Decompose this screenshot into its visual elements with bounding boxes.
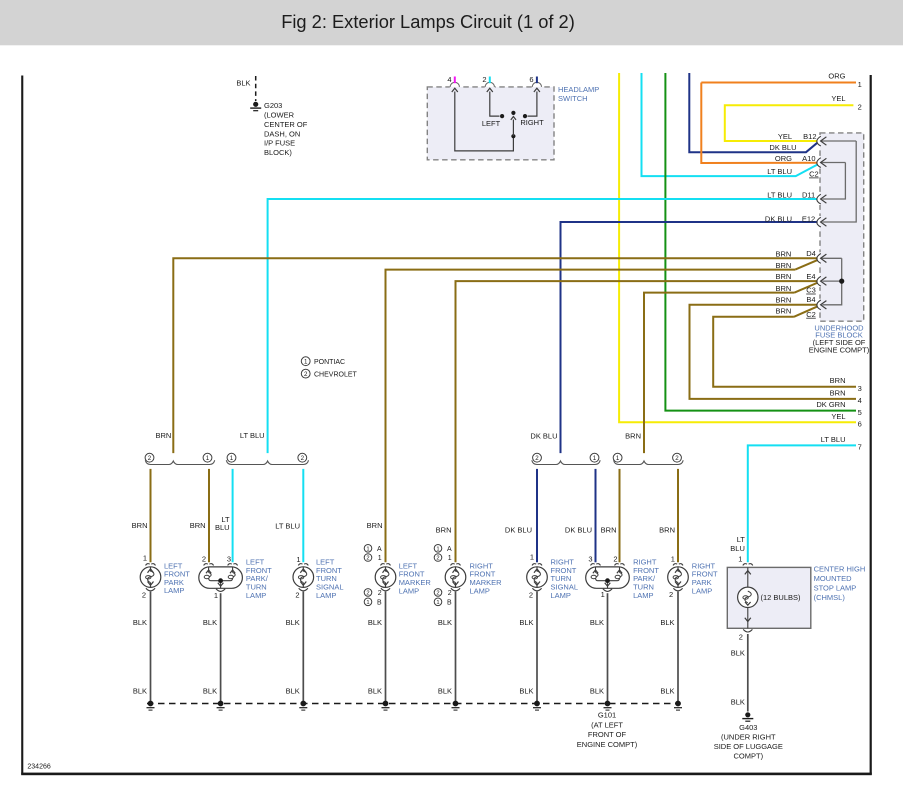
svg-text:BRN: BRN (775, 284, 791, 293)
svg-text:BLK: BLK (368, 618, 382, 627)
svg-text:2: 2 (301, 455, 305, 462)
svg-text:C2: C2 (806, 310, 816, 319)
svg-text:CENTER OF: CENTER OF (264, 120, 308, 129)
svg-text:BLK: BLK (133, 618, 147, 627)
svg-text:1: 1 (593, 455, 597, 462)
svg-text:3: 3 (588, 555, 592, 564)
svg-text:1: 1 (378, 555, 382, 562)
svg-text:BRN: BRN (775, 272, 791, 281)
svg-text:1: 1 (530, 552, 534, 561)
svg-text:2: 2 (436, 590, 439, 596)
svg-text:A: A (377, 546, 382, 553)
svg-text:LAMP: LAMP (164, 586, 184, 595)
svg-text:BRN: BRN (659, 526, 675, 535)
svg-text:Fig 2: Exterior Lamps Circuit: Fig 2: Exterior Lamps Circuit (1 of 2) (281, 11, 575, 32)
svg-text:2: 2 (142, 590, 146, 599)
svg-text:2: 2 (675, 455, 679, 462)
svg-text:BLK: BLK (438, 618, 452, 627)
svg-text:BRN: BRN (601, 526, 617, 535)
svg-text:1: 1 (366, 600, 369, 606)
svg-text:1: 1 (230, 455, 234, 462)
svg-text:1: 1 (448, 555, 452, 562)
svg-text:(LOWER: (LOWER (264, 111, 295, 120)
svg-text:DK BLU: DK BLU (505, 526, 532, 535)
svg-text:LAMP: LAMP (470, 587, 490, 596)
svg-text:BLK: BLK (368, 686, 382, 695)
svg-text:BLU: BLU (730, 544, 745, 553)
svg-text:B4: B4 (806, 295, 815, 304)
svg-text:1: 1 (601, 590, 605, 599)
svg-text:E4: E4 (806, 272, 815, 281)
svg-text:LT BLU: LT BLU (767, 190, 792, 199)
svg-text:(12 BULBS): (12 BULBS) (761, 593, 802, 602)
svg-text:BRN: BRN (830, 388, 846, 397)
svg-text:BLK: BLK (286, 686, 300, 695)
svg-text:YEL: YEL (831, 94, 845, 103)
svg-text:1: 1 (616, 455, 620, 462)
svg-text:ENGINE COMPT): ENGINE COMPT) (809, 346, 870, 355)
svg-text:SWITCH: SWITCH (558, 94, 588, 103)
svg-text:1: 1 (214, 591, 218, 600)
svg-text:BLU: BLU (215, 523, 230, 532)
svg-text:A: A (447, 546, 452, 553)
svg-text:B: B (377, 599, 382, 606)
svg-text:BLK: BLK (438, 686, 452, 695)
svg-text:A10: A10 (802, 154, 815, 163)
svg-text:234266: 234266 (27, 764, 50, 771)
svg-text:B: B (447, 599, 452, 606)
svg-text:2: 2 (202, 555, 206, 564)
svg-text:5: 5 (858, 408, 862, 417)
svg-text:HEADLAMP: HEADLAMP (558, 85, 599, 94)
svg-text:LT BLU: LT BLU (767, 167, 792, 176)
svg-text:PONTIAC: PONTIAC (314, 359, 345, 366)
svg-text:2: 2 (295, 591, 299, 600)
svg-text:DK BLU: DK BLU (765, 214, 792, 223)
svg-text:BRN: BRN (625, 432, 641, 441)
svg-text:2: 2 (448, 590, 452, 597)
svg-text:LAMP: LAMP (692, 587, 712, 596)
svg-text:1: 1 (738, 555, 742, 564)
svg-text:2: 2 (378, 590, 382, 597)
svg-text:BLK: BLK (731, 698, 745, 707)
svg-text:2: 2 (148, 455, 152, 462)
svg-text:BRN: BRN (132, 521, 148, 530)
svg-text:BLK: BLK (660, 686, 674, 695)
svg-text:LAMP: LAMP (551, 591, 571, 600)
svg-text:DK BLU: DK BLU (769, 143, 796, 152)
svg-text:BLOCK): BLOCK) (264, 148, 292, 157)
svg-text:1: 1 (671, 555, 675, 564)
svg-text:1: 1 (366, 546, 369, 552)
svg-text:ENGINE COMPT): ENGINE COMPT) (577, 740, 638, 749)
svg-text:2: 2 (304, 371, 308, 378)
svg-text:G203: G203 (264, 101, 282, 110)
svg-text:CENTER HIGH: CENTER HIGH (814, 565, 866, 574)
svg-text:2: 2 (535, 455, 539, 462)
svg-text:BLK: BLK (203, 686, 217, 695)
svg-text:BRN: BRN (775, 296, 791, 305)
svg-text:1: 1 (296, 555, 300, 564)
svg-text:1: 1 (436, 600, 439, 606)
svg-text:2: 2 (436, 556, 439, 562)
svg-text:1: 1 (206, 455, 210, 462)
svg-text:LT BLU: LT BLU (821, 435, 846, 444)
svg-text:G403: G403 (739, 723, 757, 732)
svg-text:LT BLU: LT BLU (275, 522, 300, 531)
svg-text:DK BLU: DK BLU (530, 432, 557, 441)
svg-text:ORG: ORG (775, 154, 792, 163)
svg-text:1: 1 (858, 80, 862, 89)
svg-text:BLK: BLK (519, 686, 533, 695)
svg-text:3: 3 (858, 384, 862, 393)
svg-text:BLK: BLK (133, 686, 147, 695)
svg-text:BRN: BRN (190, 521, 206, 530)
svg-text:6: 6 (858, 420, 862, 429)
svg-text:BRN: BRN (775, 250, 791, 259)
svg-text:BLK: BLK (660, 618, 674, 627)
svg-text:SIDE OF LUGGAGE: SIDE OF LUGGAGE (714, 742, 783, 751)
svg-text:LEFT: LEFT (482, 119, 501, 128)
svg-text:DASH, ON: DASH, ON (264, 129, 300, 138)
svg-text:COMPT): COMPT) (734, 752, 764, 761)
svg-text:(CHMSL): (CHMSL) (814, 593, 846, 602)
svg-text:1: 1 (304, 358, 308, 365)
svg-text:MOUNTED: MOUNTED (814, 574, 852, 583)
svg-text:LT: LT (737, 535, 746, 544)
svg-text:G101: G101 (598, 710, 616, 719)
svg-text:LAMP: LAMP (246, 591, 266, 600)
svg-text:7: 7 (858, 443, 862, 452)
svg-text:BRN: BRN (436, 526, 452, 535)
svg-text:CHEVROLET: CHEVROLET (314, 371, 358, 378)
svg-text:(UNDER RIGHT: (UNDER RIGHT (721, 733, 776, 742)
svg-text:BRN: BRN (775, 261, 791, 270)
svg-text:BRN: BRN (830, 376, 846, 385)
svg-text:2: 2 (613, 555, 617, 564)
svg-text:BLK: BLK (590, 686, 604, 695)
svg-text:BLK: BLK (286, 618, 300, 627)
svg-text:LAMP: LAMP (633, 591, 653, 600)
svg-text:RIGHT: RIGHT (520, 118, 544, 127)
svg-text:E12: E12 (802, 214, 815, 223)
svg-text:DK GRN: DK GRN (816, 400, 845, 409)
svg-text:FRONT OF: FRONT OF (588, 730, 627, 739)
svg-text:1: 1 (143, 553, 147, 562)
svg-text:2: 2 (858, 103, 862, 112)
svg-text:ORG: ORG (828, 71, 845, 80)
svg-text:2: 2 (669, 590, 673, 599)
svg-text:B12: B12 (803, 132, 816, 141)
svg-text:4: 4 (447, 75, 451, 84)
svg-text:I/P FUSE: I/P FUSE (264, 139, 295, 148)
svg-text:3: 3 (227, 555, 231, 564)
svg-text:YEL: YEL (831, 412, 845, 421)
svg-text:2: 2 (529, 591, 533, 600)
svg-text:BRN: BRN (155, 431, 171, 440)
svg-text:2: 2 (482, 75, 486, 84)
svg-text:DK BLU: DK BLU (565, 526, 592, 535)
svg-text:D4: D4 (806, 249, 816, 258)
svg-text:LT BLU: LT BLU (240, 431, 265, 440)
svg-text:LAMP: LAMP (399, 587, 419, 596)
svg-text:2: 2 (739, 633, 743, 642)
svg-text:BRN: BRN (367, 521, 383, 530)
svg-text:4: 4 (858, 396, 862, 405)
svg-text:6: 6 (529, 75, 533, 84)
svg-text:2: 2 (366, 590, 369, 596)
svg-text:1: 1 (436, 546, 439, 552)
svg-text:BLK: BLK (236, 79, 250, 88)
svg-text:2: 2 (366, 556, 369, 562)
svg-text:BRN: BRN (775, 306, 791, 315)
svg-text:C3: C3 (806, 286, 816, 295)
svg-text:BLK: BLK (519, 618, 533, 627)
svg-text:STOP LAMP: STOP LAMP (814, 584, 857, 593)
svg-text:BLK: BLK (203, 618, 217, 627)
svg-text:(AT LEFT: (AT LEFT (591, 720, 623, 729)
svg-text:BLK: BLK (590, 618, 604, 627)
svg-text:BLK: BLK (731, 649, 745, 658)
svg-text:YEL: YEL (778, 132, 792, 141)
svg-text:LAMP: LAMP (316, 591, 336, 600)
svg-text:D11: D11 (802, 190, 815, 199)
svg-text:C2: C2 (809, 170, 819, 179)
